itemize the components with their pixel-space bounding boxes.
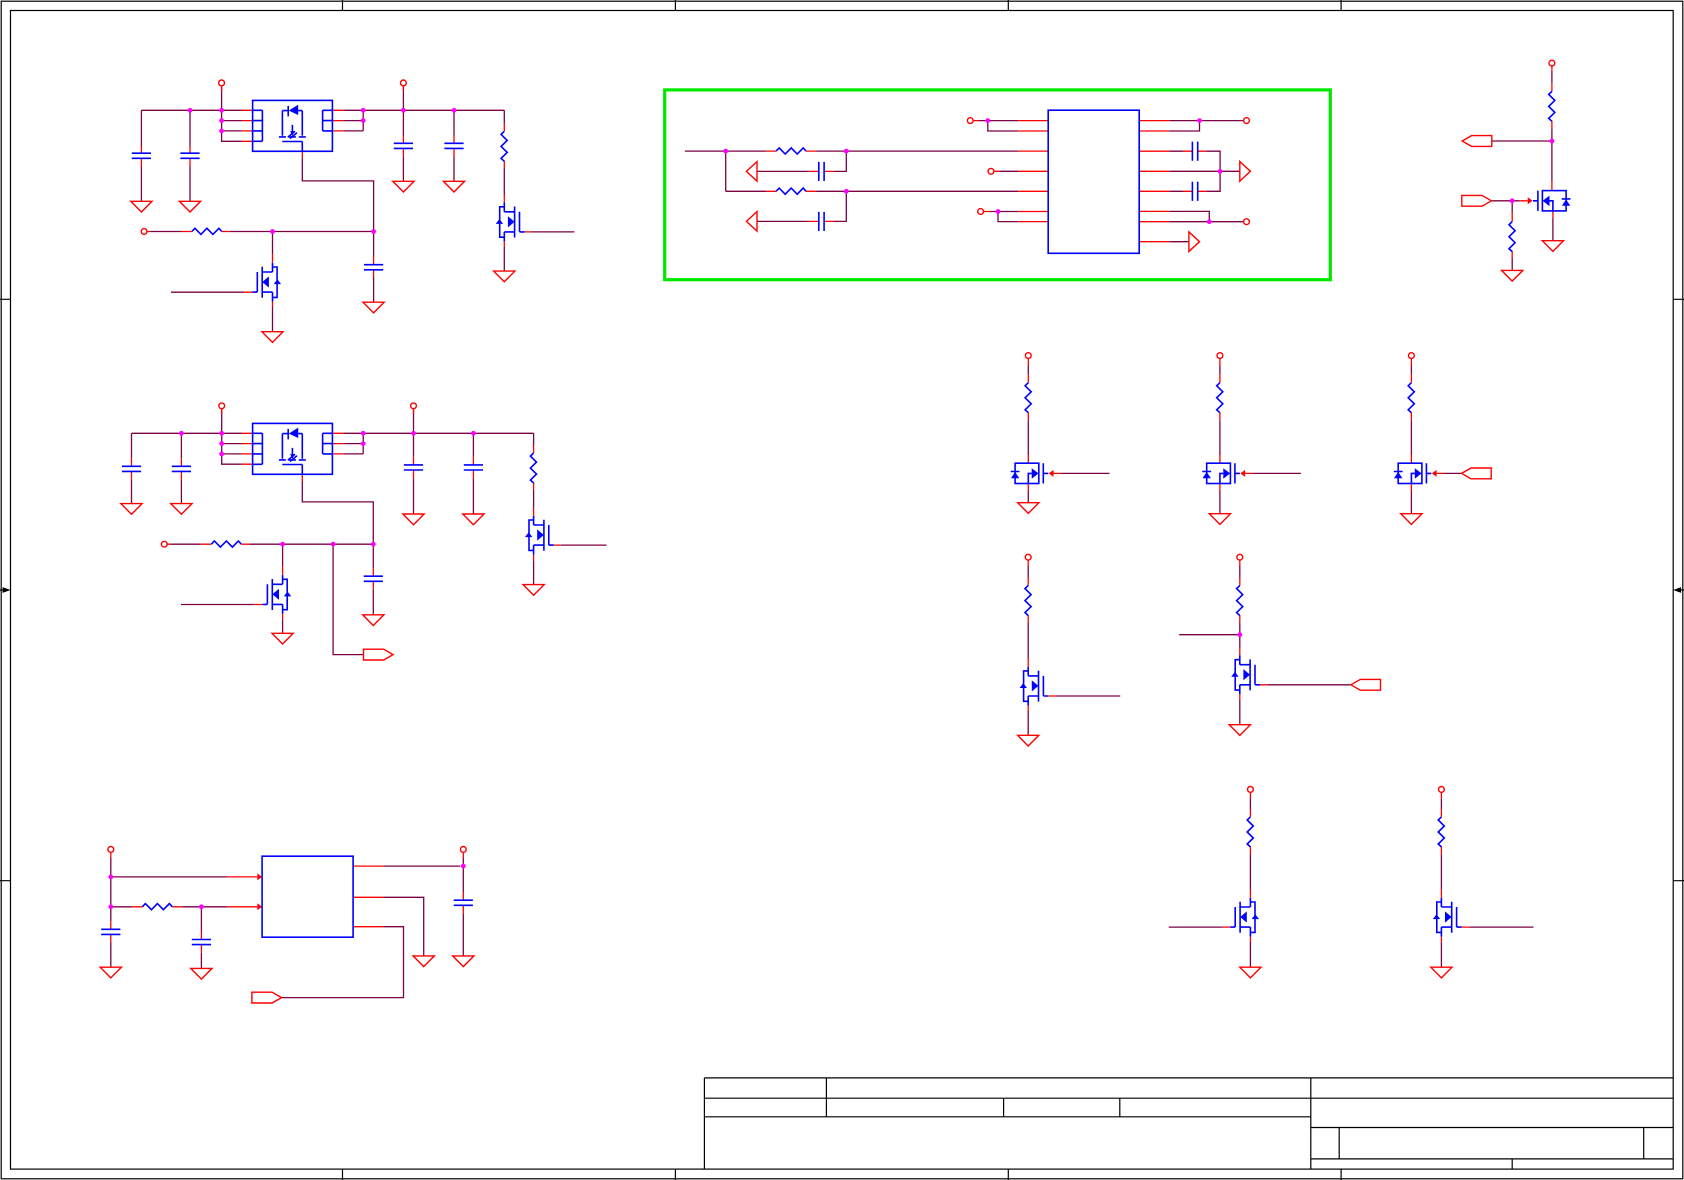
transistor Q10 [1020,667,1049,706]
capacitor C6 [122,466,141,471]
ground [413,956,434,967]
tag EN [364,649,394,660]
resistor R11 [1408,383,1414,413]
wire: right pin A to port [383,865,460,867]
wire: Q4 drain [282,544,284,566]
resistor R7 [1549,91,1555,121]
border zone ticks bottom [343,1169,1342,1180]
wire: stub from left [1179,634,1240,636]
wire: right pin 8 to tag [1169,241,1189,243]
wire: right pins wrap [343,110,363,131]
port [978,209,984,215]
wire: input line 2 [170,543,373,545]
ground [121,504,142,515]
ground [1401,514,1422,525]
capacitor C15 [101,929,120,934]
wire: tag branch [333,544,363,654]
dual MOSFET U2 [253,423,333,474]
transistor Q3 [496,203,525,242]
capacitor C7 [172,466,191,471]
resistor R6 [776,188,806,194]
tag [1351,679,1381,690]
border zone ticks left [0,299,11,880]
capacitor C16 [192,940,211,945]
tag triangle right A [1240,162,1251,182]
port [1244,219,1250,225]
port [1409,353,1415,359]
wire: R1 to Q3 drain [503,168,505,195]
wire: Q4 source to ground [282,619,284,633]
port [460,847,466,853]
ground [272,633,293,644]
wire: input line [150,231,374,233]
tag VOUT sense [1462,136,1492,147]
ground [1229,725,1250,736]
capacitor C10 [364,576,383,581]
capacitor C2 [180,153,199,158]
title block [704,1078,1673,1159]
IC U4 [262,856,353,937]
wire: Q2 source to ground [272,307,274,332]
port P6 [161,541,167,547]
wire: source [1027,711,1029,735]
wire: right pins wrap [343,433,363,454]
highlight rectangle [665,90,1331,280]
pin stubs (red) [132,409,561,619]
ground [403,514,424,525]
wire [1249,798,1251,889]
IC pin arrow [257,903,262,910]
port [1237,554,1243,560]
tag [1462,468,1492,479]
wire: port to resistor [1551,71,1553,83]
resistor R9 [1025,383,1031,413]
junction dots [179,431,476,547]
capacitor C13 [1192,142,1197,161]
wire: port stem [110,858,112,907]
wire: source [1239,700,1241,725]
wire: R8 to ground [1511,259,1513,271]
port P4 [219,403,225,409]
wire: Q6 source to ground [1552,219,1554,241]
wire: cap row A [757,151,846,171]
wire: C1 leg [140,110,142,201]
transistor Q9 [1394,463,1437,483]
junction dots [1510,139,1555,204]
wire: source [1410,491,1412,514]
wire: junction to resistor R8 [1511,201,1513,213]
wire: source [1027,491,1029,503]
capacitor C11 [819,162,824,181]
ground [1431,967,1452,978]
resistor R4 [211,541,241,547]
junction dots [188,108,457,234]
wire: right pin B to ground [383,897,424,956]
resistor R1 [501,131,507,161]
centre arrow right [1680,589,1684,591]
pin stubs [1441,792,1469,942]
ground [453,956,474,967]
capacitor C1 [132,153,151,158]
wire: right pin 3 cap net [1169,151,1220,171]
wire: R3 to Q5 drain [533,490,535,508]
wire [1219,366,1221,455]
wire: gate lead to tag [1444,472,1462,474]
transistor Q5 [525,516,554,555]
border zone ticks top [343,0,1342,11]
wire: gate lead [1056,695,1120,697]
wire: right pin 5 cap net [1169,171,1220,191]
ground [523,585,544,596]
wire: source [1219,491,1221,514]
wire: right pin C to tag [282,927,404,998]
wire: Q3 gate lead [531,231,575,233]
centre arrow left [0,589,4,591]
pin stubs [1028,560,1056,711]
wire: cap row B [757,191,846,221]
resistor R8 [1509,222,1515,252]
ground [363,302,384,313]
wire: left port pins 6-7 [990,212,1018,222]
port [1244,118,1250,124]
transistor Q12 [1230,898,1259,937]
port P2 [401,80,407,86]
wire: branch down [725,151,727,191]
resistor R2 [192,228,222,234]
resistor R5 [776,148,806,154]
wire: right pins 1-2 to port [1169,121,1243,131]
IC U3 [1048,110,1139,253]
capacitor C4 [444,143,463,148]
wire: port stem [413,409,415,433]
transistor Q4 [262,575,291,614]
capacitor C9 [464,465,483,470]
capacitor C3 [394,143,413,148]
pin stubs [1411,359,1444,491]
transistor Q7 [1011,463,1054,483]
wire [1027,366,1029,455]
capacitor C5 [364,265,383,270]
resistor R12 [1025,586,1031,616]
junction dots [723,118,1222,224]
wire: C17 leg [462,913,464,956]
IC pin arrow [257,873,262,880]
wire: Q2 drain [272,232,274,255]
pin stubs [1240,560,1268,700]
wire: net A [685,150,1018,152]
capacitor C17 [454,900,473,905]
port P3 [141,229,147,235]
port [1217,353,1223,359]
port P5 [411,403,417,409]
wire [1027,566,1029,659]
wire: port P1 stem and gate pins [222,86,242,141]
junction dots [108,864,465,910]
resistor R15 [1438,817,1444,847]
wire: C15 leg [110,907,112,967]
wire: pin 2 net [111,906,228,908]
transistor Q13 [1433,898,1462,937]
wire: C6 leg [131,433,133,503]
ground [191,968,212,979]
wire: tag to junction [1492,140,1552,142]
ground [179,201,200,212]
wire: gate lead [1253,472,1301,474]
port [1439,787,1445,793]
wire: gate tag to junction [1491,200,1519,202]
ground [393,181,414,192]
resistor R3 [530,453,536,483]
pin stubs (red) [111,852,464,952]
wire: pin 1 net [111,876,228,878]
port [1248,787,1254,793]
wire: net B [726,190,1019,192]
ground [363,615,384,626]
wire: gate lead [1061,472,1110,474]
ground [1209,514,1230,525]
wire: C8 leg [413,433,415,514]
wire: Q5 gate lead [561,544,607,546]
capacitor C12 [819,212,824,231]
ground [463,514,484,525]
ground [1018,503,1039,514]
ground [262,332,283,343]
wire: gate lead to tag [1268,684,1351,686]
wire: port stem and gate pins [222,409,242,464]
wire: right pins 6-7 to port [1169,211,1243,221]
port P7 [1549,60,1555,66]
wire: resistor to junction to Q6 [1551,129,1553,182]
wire: gate feedback net 2 [302,482,373,615]
wire: Q5 source to ground [533,560,535,584]
transistor Q11 [1231,656,1260,695]
wire: C9 leg [472,433,474,514]
wire: main bus VIN [141,110,504,123]
wire: left port pins 1-2 [979,121,1018,131]
wire: port stem right [462,858,464,892]
pin stubs (red) [766,121,1206,242]
wire: C3 leg [402,110,404,181]
wire: port P2 stem [402,86,404,110]
pin stubs [1220,359,1253,491]
wire: right pin 4 to tag [1169,170,1240,172]
ground [131,201,152,212]
wire: source [1249,942,1251,967]
wire: C4 leg [453,110,455,181]
resistor R14 [1247,817,1253,847]
tag triangle left A [746,162,757,182]
ground [100,967,121,978]
wire: source [1440,942,1442,967]
wire [1239,566,1241,648]
port [1025,353,1031,359]
wire: gate lead [1469,926,1533,928]
transistor Q8 [1202,463,1245,483]
pin stubs (red) [1512,66,1553,258]
ground [1502,270,1523,281]
ground [1018,735,1039,746]
capacitor C8 [404,465,423,470]
dual MOSFET U1 [253,100,333,151]
wire: C7 leg [180,433,182,503]
wire: Q4 gate lead [181,604,254,606]
ground [1240,967,1261,978]
transistor Q6 [1528,191,1571,211]
wire [1410,366,1412,455]
wire: left port pin 4 [1000,170,1018,172]
tag triangle left B [746,212,757,232]
port [988,168,994,174]
pin stubs [1028,359,1061,491]
ground [1542,241,1563,252]
wire: C16 leg [200,907,202,969]
tag gate input [1462,195,1492,206]
wire: gate feedback net [302,159,373,303]
pin stubs [1223,792,1251,942]
port [1025,554,1031,560]
port P1 [219,80,225,86]
ground [443,181,464,192]
capacitor C14 [1192,182,1197,201]
tag feedback [252,992,282,1003]
resistor R16 [142,904,172,910]
port [967,118,973,124]
transistor Q2 [252,263,281,302]
border zone ticks right [1673,299,1684,880]
pin stubs (red) [141,86,531,307]
wire [1440,798,1442,889]
ground [171,504,192,515]
tag triangle right B [1189,232,1200,252]
wire: main bus VIN2 [132,433,534,445]
wire: gate lead [1169,926,1223,928]
resistor R13 [1237,586,1243,616]
ground [494,271,515,282]
junction dot [1237,632,1242,637]
wire: C2 leg [189,110,191,201]
wire: Q2 gate lead [171,291,244,293]
wire: Q3 source to ground [503,247,505,271]
port [108,847,114,853]
resistor R10 [1217,383,1223,413]
